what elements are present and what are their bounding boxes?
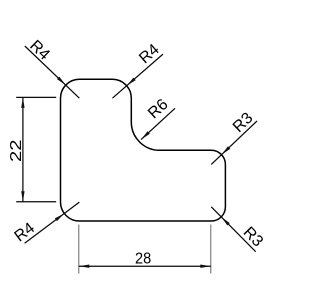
svg-text:R6: R6 bbox=[145, 96, 172, 122]
leader R4 top-left: line bbox=[25, 46, 80, 98]
leader R3 upper-right: arrowhead bbox=[222, 146, 231, 154]
leader R4 bottom-left: line bbox=[25, 202, 80, 243]
dim 28: left extension line bbox=[78, 225, 80, 274]
leader R3 upper-right: line bbox=[211, 121, 257, 164]
leader R4 bottom-left: arrowhead bbox=[55, 213, 64, 221]
dim 22: bottom extension line bbox=[16, 201, 56, 203]
dim 28: right extension line bbox=[210, 225, 212, 274]
svg-text:R4: R4 bbox=[26, 37, 53, 63]
outline: L-shaped profile with fillets R4/R6/R3 bbox=[61, 79, 226, 221]
leader R3 lower-right: line bbox=[211, 207, 255, 252]
dim 28: arrow left bbox=[79, 265, 90, 268]
leader R3 lower-right: arrowhead bbox=[221, 217, 230, 226]
svg-text:R3: R3 bbox=[240, 224, 267, 251]
svg-text:R4: R4 bbox=[136, 41, 163, 67]
dim 22: top extension line bbox=[16, 96, 56, 98]
leader R4 top-right: arrowhead bbox=[127, 78, 136, 86]
dim 22: dimension line bbox=[22, 97, 24, 201]
leader R4 top-right: line bbox=[112, 54, 163, 98]
leader R6 fillet: line bbox=[141, 108, 175, 139]
svg-text:R4: R4 bbox=[12, 220, 39, 246]
svg-text:22: 22 bbox=[8, 139, 25, 162]
dim 28: arrow right bbox=[200, 265, 211, 268]
dim 22: arrow down bbox=[21, 191, 24, 202]
leader R4 top-left: arrowhead bbox=[57, 77, 66, 85]
dim 28: dimension line bbox=[79, 265, 211, 267]
dim 22: arrow up bbox=[21, 97, 24, 108]
svg-text:28: 28 bbox=[135, 251, 151, 268]
svg-text:R3: R3 bbox=[230, 110, 257, 136]
leader R6 fillet: arrowhead bbox=[141, 131, 150, 139]
